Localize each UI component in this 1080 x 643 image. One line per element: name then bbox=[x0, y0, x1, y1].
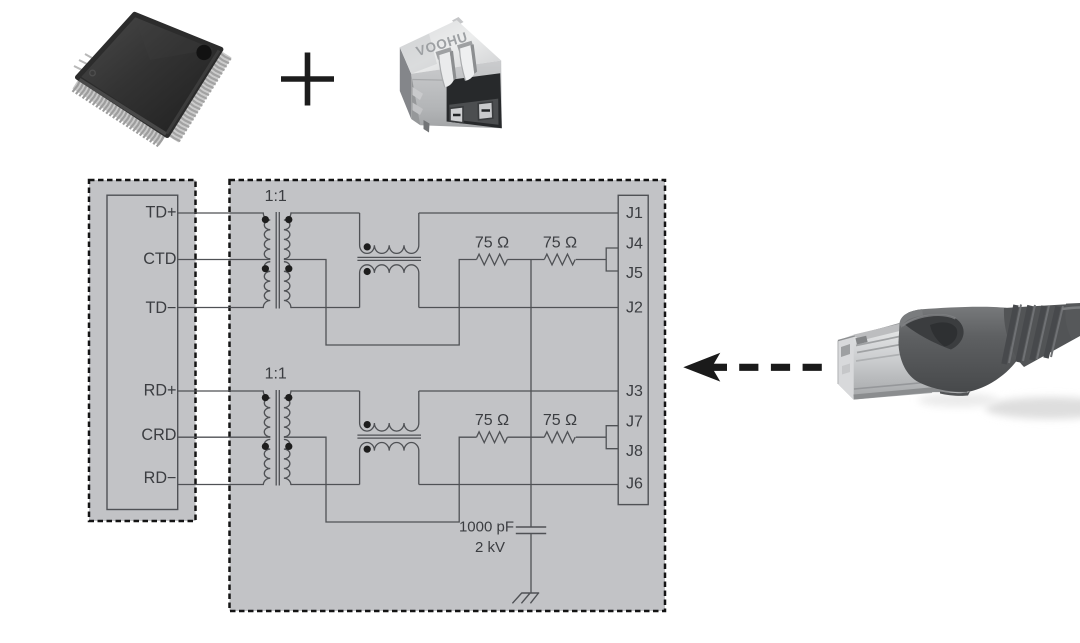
wire T2 center tap routing to resistor node bbox=[284, 437, 477, 522]
common-mode choke L2 top winding bbox=[360, 391, 419, 431]
photo: Ethernet patch cable plug bbox=[838, 303, 1080, 419]
svg-text:1:1: 1:1 bbox=[265, 188, 287, 205]
svg-text:75 Ω: 75 Ω bbox=[543, 234, 577, 251]
transformer T2 secondary winding bbox=[284, 391, 292, 437]
wire R2 to J4/J5 bracket bbox=[576, 259, 606, 261]
svg-text:75 Ω: 75 Ω bbox=[543, 412, 577, 429]
svg-text:2 kV: 2 kV bbox=[475, 539, 505, 556]
wire T2 secondary bottom to choke L2 bbox=[291, 484, 360, 486]
svg-text:TD−: TD− bbox=[145, 299, 176, 317]
wire T1 secondary bottom to choke L1 bbox=[291, 307, 360, 309]
svg-text:J6: J6 bbox=[626, 476, 643, 493]
arrow head (cable direction) bbox=[683, 353, 720, 382]
photo: shielded RJ45 magjack (VOOHU) bbox=[400, 17, 502, 133]
svg-text:RD+: RD+ bbox=[144, 381, 177, 399]
arrow dashed shaft bbox=[739, 364, 822, 371]
svg-text:CRD: CRD bbox=[141, 426, 176, 444]
transformer T2 core bbox=[276, 390, 279, 486]
choke L2 bottom winding bbox=[360, 443, 419, 485]
svg-text:1000 pF: 1000 pF bbox=[459, 519, 514, 536]
svg-text:RD−: RD− bbox=[144, 469, 177, 487]
svg-text:75 Ω: 75 Ω bbox=[475, 412, 509, 429]
wire capacitor to ground bbox=[530, 534, 532, 594]
choke L1 bottom winding bbox=[360, 265, 419, 308]
resistor R2 75 ohm bbox=[544, 254, 575, 265]
wire TD- to T1 primary bbox=[178, 307, 250, 309]
transformer T2 primary winding bbox=[250, 391, 270, 437]
svg-text:J5: J5 bbox=[626, 265, 643, 282]
wire R1 to R2 bbox=[507, 259, 544, 261]
svg-text:75 Ω: 75 Ω bbox=[475, 234, 509, 251]
svg-text:J2: J2 bbox=[626, 300, 643, 317]
wire T1 secondary top to choke L1 bbox=[291, 212, 360, 214]
svg-text:J1: J1 bbox=[626, 205, 643, 222]
capacitor C1 1000 pF plates bbox=[516, 527, 546, 534]
svg-text:CTD: CTD bbox=[143, 250, 176, 268]
svg-text:1:1: 1:1 bbox=[265, 366, 287, 383]
wire CTD to T1 primary center tap bbox=[178, 259, 271, 261]
svg-text:TD+: TD+ bbox=[145, 203, 176, 221]
plus sign bbox=[281, 53, 334, 106]
choke L1 core bbox=[357, 257, 421, 260]
wire choke L2 to J6 bbox=[419, 484, 618, 486]
photo: Ethernet PHY chip (QFP IC) bbox=[73, 14, 232, 146]
wire RD- to T2 primary bbox=[178, 484, 250, 486]
wire resistor junction bus to capacitor bbox=[530, 260, 532, 528]
resistor R1 75 ohm bbox=[477, 254, 508, 265]
transformer T2 phase dots bbox=[262, 394, 269, 401]
wire CRD to T2 primary center tap bbox=[178, 436, 271, 438]
svg-text:J4: J4 bbox=[626, 235, 643, 252]
choke L1 phase dots bbox=[364, 243, 371, 250]
transformer T1 phase dots bbox=[262, 216, 269, 223]
wire choke L2 to J3 bbox=[419, 390, 618, 392]
svg-text:J7: J7 bbox=[626, 414, 643, 431]
wire R3 to R4 bbox=[507, 436, 544, 438]
transformer T1 core bbox=[276, 212, 279, 309]
wire choke L1 to J1 bbox=[419, 212, 618, 214]
bracket J7-J8 bbox=[606, 426, 618, 449]
wire RD+ to T2 primary bbox=[178, 390, 250, 392]
bracket J4-J5 bbox=[606, 248, 618, 271]
resistor R4 75 ohm bbox=[544, 432, 575, 443]
transformer T1 primary winding bbox=[250, 213, 270, 259]
wire T1 center tap routing to resistor node bbox=[284, 260, 477, 346]
wire R4 to J7/J8 bracket bbox=[576, 436, 606, 438]
RJ45 connector pin box bbox=[618, 195, 648, 504]
wire choke L1 to J2 bbox=[419, 307, 618, 309]
PHY-side dashed box bbox=[89, 180, 196, 521]
wire TD+ to T1 primary bbox=[178, 212, 250, 214]
chassis ground bbox=[512, 593, 539, 603]
wire T2 secondary top to choke L2 bbox=[291, 390, 360, 392]
common-mode choke L1 top winding bbox=[360, 213, 419, 253]
svg-text:J8: J8 bbox=[626, 443, 643, 460]
svg-text:J3: J3 bbox=[626, 383, 643, 400]
magnetics module dashed box bbox=[230, 180, 666, 611]
choke L2 core bbox=[357, 435, 421, 438]
transformer T1 secondary winding bbox=[284, 213, 292, 259]
choke L2 phase dots bbox=[364, 421, 371, 428]
resistor R3 75 ohm bbox=[477, 432, 508, 443]
PHY pin box bbox=[107, 195, 178, 509]
